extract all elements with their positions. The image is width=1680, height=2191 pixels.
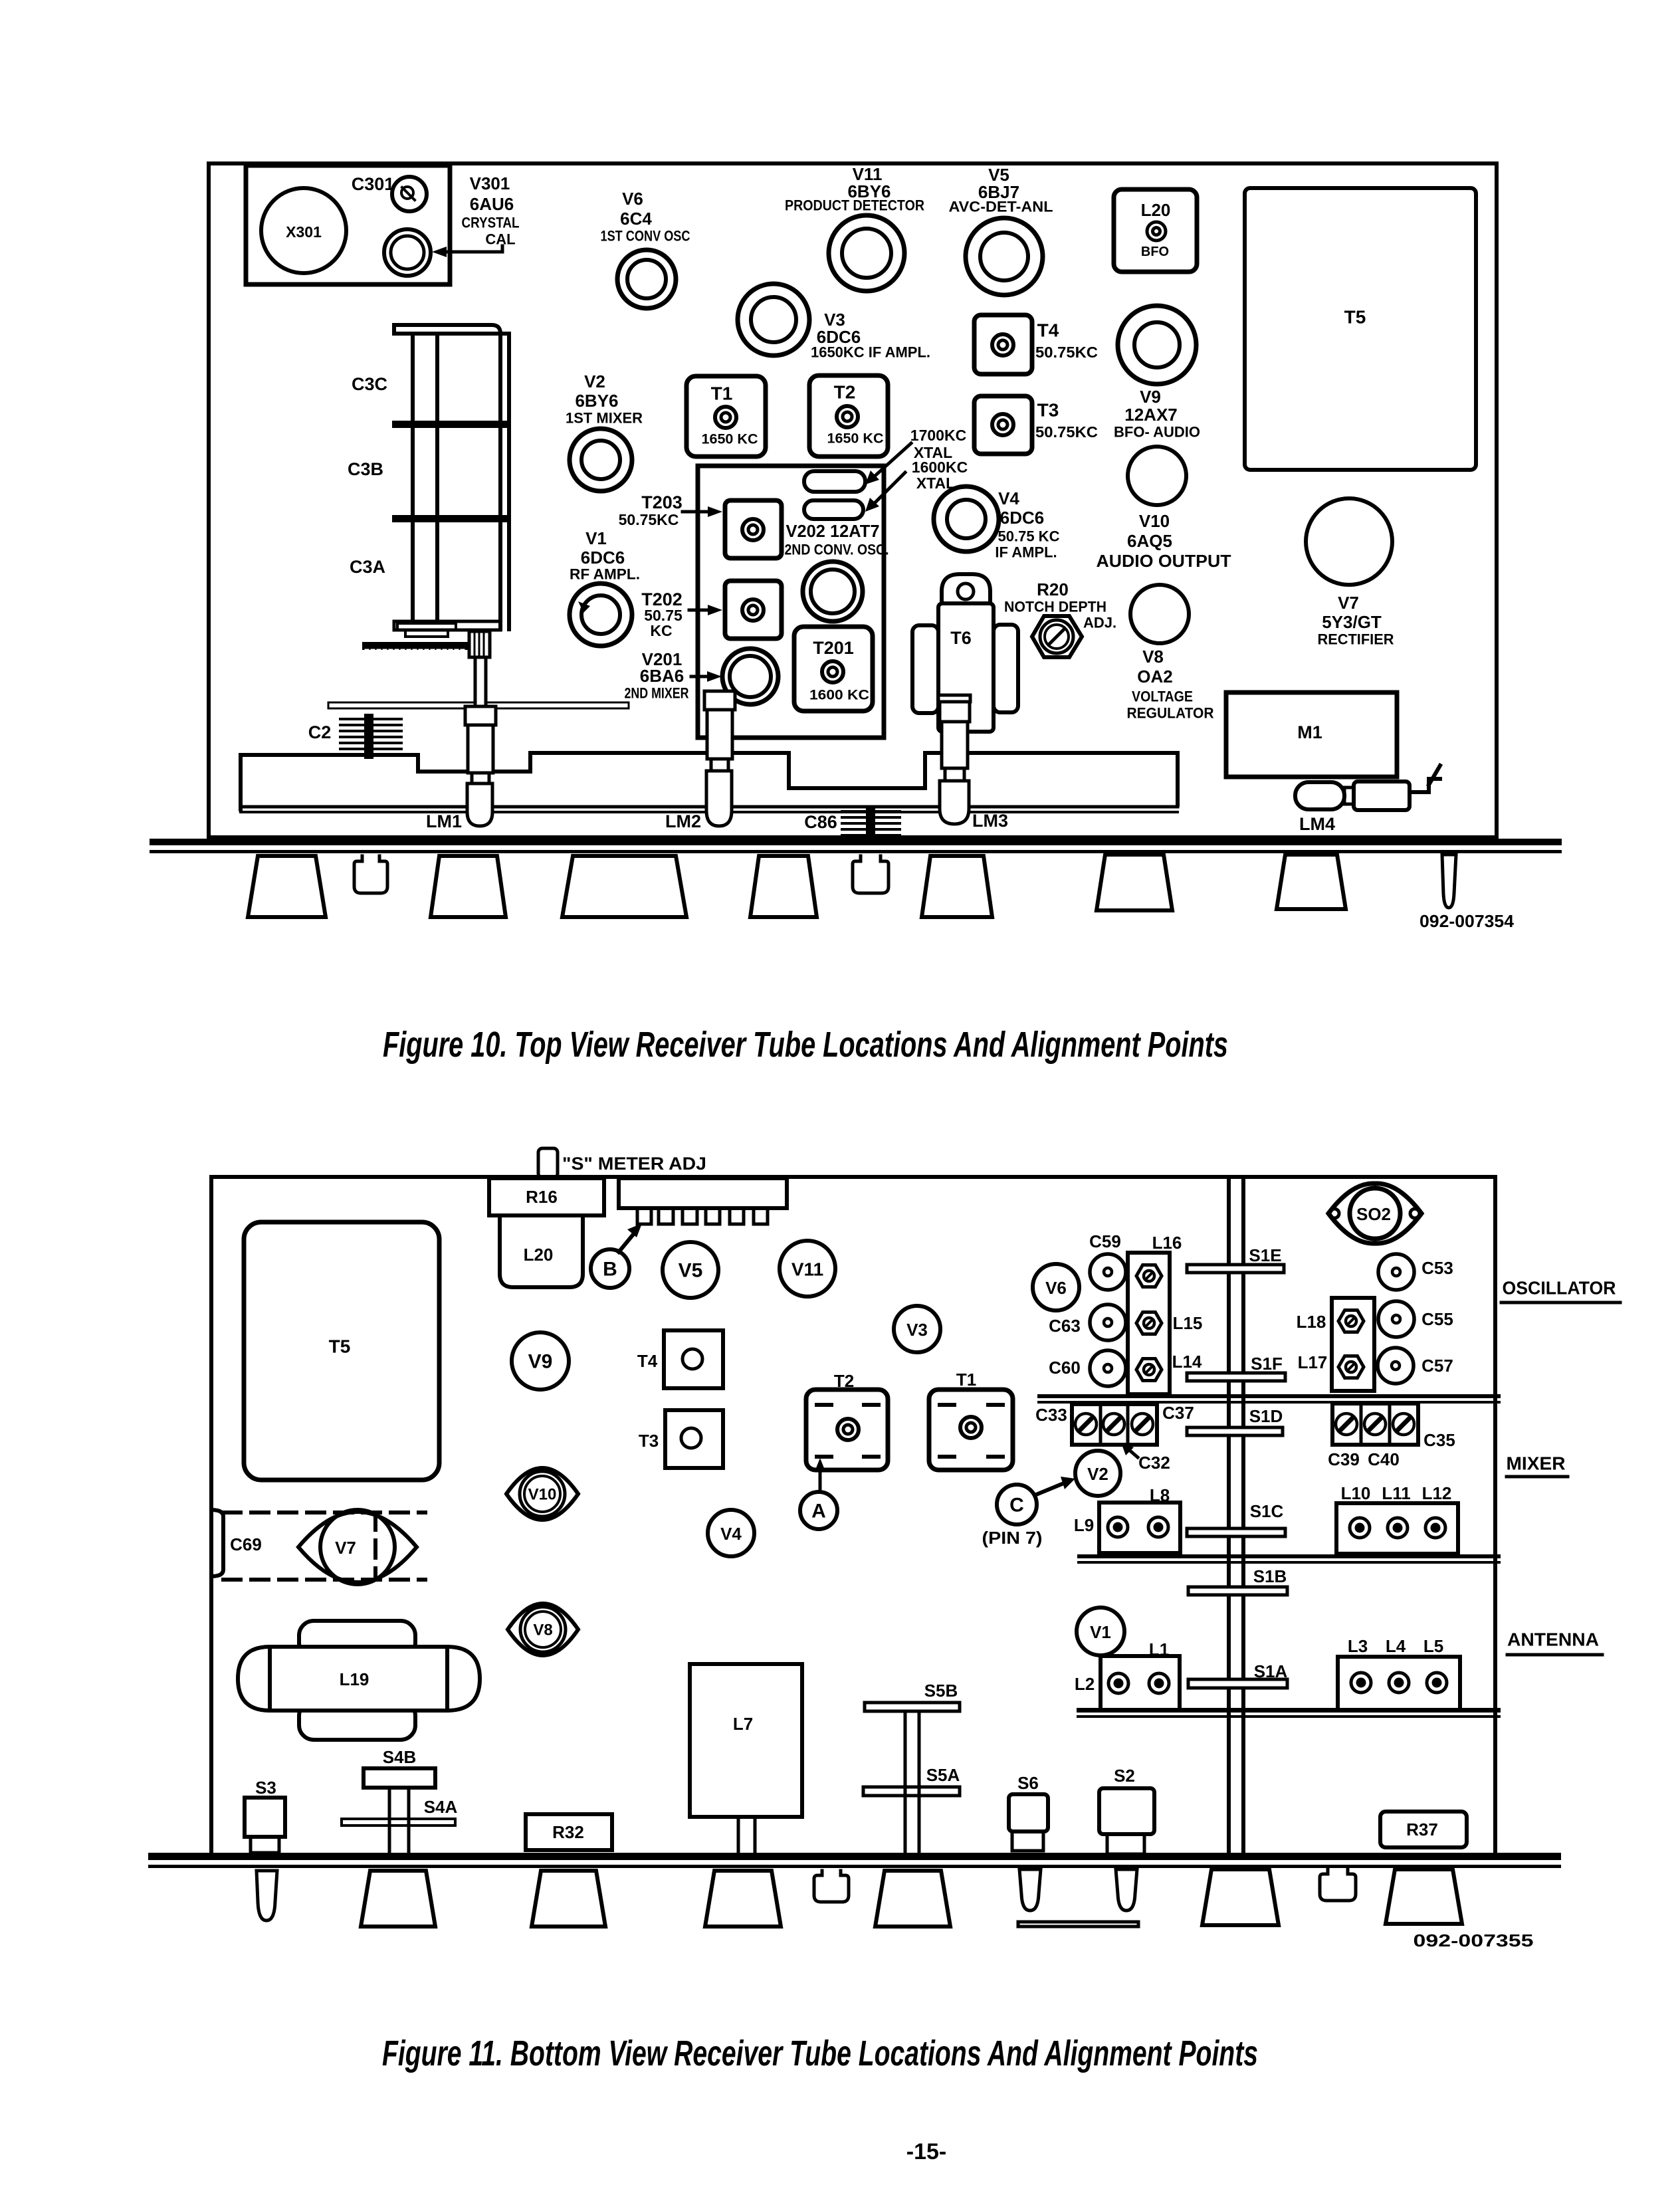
switch shaft S5 xyxy=(905,1711,919,1853)
arrow A to T2 xyxy=(819,1467,822,1491)
capacitor C69 dashed outline xyxy=(223,1513,425,1580)
svg-text:6DC6: 6DC6 xyxy=(1000,508,1044,528)
svg-text:S5B: S5B xyxy=(924,1681,958,1701)
svg-text:C2: C2 xyxy=(308,722,332,742)
tube V3 6DC6 1650KC IF ampl xyxy=(738,284,809,356)
svg-text:6C4: 6C4 xyxy=(620,209,652,229)
tube position V1 xyxy=(1077,1608,1124,1655)
svg-text:5Y3/GT: 5Y3/GT xyxy=(1322,612,1382,632)
pin foot xyxy=(1442,855,1456,908)
leader arrow to 1600KC crystal xyxy=(871,472,905,507)
svg-text:50.75KC: 50.75KC xyxy=(1035,423,1098,441)
svg-text:CRYSTAL: CRYSTAL xyxy=(462,215,520,231)
svg-text:LM2: LM2 xyxy=(665,811,701,831)
svg-text:Figure 11. Bottom View Receive: Figure 11. Bottom View Receiver Tube Loc… xyxy=(382,2034,1258,2073)
prong foot (under S3) xyxy=(257,1871,277,1921)
svg-text:PRODUCT DETECTOR: PRODUCT DETECTOR xyxy=(785,197,924,214)
svg-text:C59: C59 xyxy=(1089,1231,1121,1251)
svg-text:C: C xyxy=(1009,1495,1024,1516)
svg-text:SO2: SO2 xyxy=(1356,1204,1391,1224)
chassis base rail (bottom view) xyxy=(148,1853,1561,1860)
svg-text:V8: V8 xyxy=(1142,647,1164,667)
svg-text:T3: T3 xyxy=(1037,400,1059,421)
svg-text:S4A: S4A xyxy=(424,1797,458,1817)
crystal 1600KC xyxy=(804,500,863,519)
svg-text:L7: L7 xyxy=(733,1714,753,1734)
svg-text:LM3: LM3 xyxy=(972,811,1008,831)
svg-text:S2: S2 xyxy=(1114,1766,1135,1786)
trimmer block C33/C32/C37 xyxy=(1072,1404,1157,1445)
svg-text:50.75KC: 50.75KC xyxy=(619,511,679,528)
svg-text:(PIN 7): (PIN 7) xyxy=(982,1528,1043,1548)
coil L7 xyxy=(690,1664,802,1817)
oscillator/mixer shelf xyxy=(1037,1394,1501,1398)
svg-text:AVC-DET-ANL: AVC-DET-ANL xyxy=(949,199,1053,215)
switch shaft S4 xyxy=(389,1788,409,1853)
svg-text:V3: V3 xyxy=(906,1320,928,1340)
svg-text:C33: C33 xyxy=(1035,1405,1067,1425)
svg-text:2ND CONV. OSC.: 2ND CONV. OSC. xyxy=(785,542,889,558)
svg-text:6AQ5: 6AQ5 xyxy=(1127,531,1172,551)
crystal 1700KC xyxy=(804,471,865,492)
gang section divider (C3B/C3A) xyxy=(392,515,509,522)
svg-text:L5: L5 xyxy=(1423,1636,1443,1656)
test point A xyxy=(800,1492,837,1529)
arrow to V201 xyxy=(691,675,711,678)
foot xyxy=(922,856,992,917)
test point B xyxy=(591,1249,629,1288)
pilot lamp LM4 xyxy=(1295,782,1344,809)
svg-text:L12: L12 xyxy=(1422,1483,1452,1503)
svg-text:S1F: S1F xyxy=(1251,1354,1283,1374)
svg-text:S1C: S1C xyxy=(1250,1501,1284,1521)
chassis outline (bottom view) xyxy=(211,1177,1495,1854)
power transformer T5 (top) xyxy=(1245,188,1476,470)
svg-text:1650 KC: 1650 KC xyxy=(702,432,758,447)
meter M1 xyxy=(1226,692,1397,777)
potentiometer R16 xyxy=(489,1178,604,1215)
svg-text:C60: C60 xyxy=(1049,1358,1081,1378)
chassis outline (top view) xyxy=(209,163,1497,837)
svg-text:L14: L14 xyxy=(1172,1352,1202,1372)
terminal strip connector xyxy=(619,1178,787,1208)
knob foot xyxy=(853,856,889,893)
svg-text:C55: C55 xyxy=(1421,1309,1453,1329)
leader arrow to 1700KC crystal xyxy=(871,443,911,480)
svg-text:T2: T2 xyxy=(834,382,856,403)
gang section divider (C3C/C3B) xyxy=(392,421,509,428)
svg-text:L11: L11 xyxy=(1382,1483,1410,1503)
svg-text:-15-: -15- xyxy=(906,2139,946,2164)
tube position V8 (eye) xyxy=(508,1604,578,1655)
notch transformer T6 xyxy=(942,574,990,605)
svg-text:IF AMPL.: IF AMPL. xyxy=(995,544,1057,561)
svg-text:6BY6: 6BY6 xyxy=(575,391,618,411)
foot xyxy=(562,856,686,917)
tube position V3 xyxy=(894,1306,940,1352)
tube position V4 xyxy=(708,1510,754,1556)
svg-text:S3: S3 xyxy=(255,1778,276,1798)
tube V4 6DC6 50.75KC IF ampl xyxy=(934,486,999,552)
trimmer C53 xyxy=(1378,1254,1414,1290)
arrow C to V2 xyxy=(1035,1483,1065,1495)
svg-text:S4B: S4B xyxy=(383,1747,417,1767)
gang mounting plates xyxy=(397,623,456,630)
svg-text:V6: V6 xyxy=(622,189,643,209)
svg-text:CAL: CAL xyxy=(485,231,515,248)
tube V301 6AU6 crystal cal xyxy=(384,229,431,276)
tube position V7 (eye) xyxy=(298,1512,417,1582)
svg-text:C37: C37 xyxy=(1162,1403,1194,1423)
foot xyxy=(1202,1869,1279,1925)
svg-text:092-007355: 092-007355 xyxy=(1414,1930,1534,1950)
svg-text:R32: R32 xyxy=(552,1822,584,1842)
foot xyxy=(1277,855,1346,909)
svg-text:1ST MIXER: 1ST MIXER xyxy=(566,410,643,427)
prong feet with base plate (under S6/S2) xyxy=(1019,1869,1041,1911)
coil L20 (bottom) xyxy=(500,1215,583,1287)
svg-text:S1D: S1D xyxy=(1249,1406,1283,1426)
svg-text:RECTIFIER: RECTIFIER xyxy=(1318,631,1394,648)
tube position V11 xyxy=(780,1241,835,1297)
svg-text:T4: T4 xyxy=(1037,320,1059,341)
svg-text:V202 12AT7: V202 12AT7 xyxy=(786,521,880,541)
svg-text:S5A: S5A xyxy=(926,1765,960,1785)
svg-text:C86: C86 xyxy=(804,812,837,832)
test point C xyxy=(997,1485,1037,1524)
transformer T1 (bottom) xyxy=(929,1390,1013,1470)
IF transformer T2 xyxy=(809,375,888,457)
IF transformer T1 xyxy=(686,376,766,457)
svg-text:V5: V5 xyxy=(679,1260,703,1282)
svg-text:V1: V1 xyxy=(585,528,607,548)
svg-text:6BA6: 6BA6 xyxy=(640,666,684,686)
svg-text:1600KC: 1600KC xyxy=(912,459,968,476)
tube V8 OA2 voltage regulator xyxy=(1130,585,1189,643)
alignment tool LM2 xyxy=(704,691,735,826)
svg-text:V10: V10 xyxy=(1139,511,1170,531)
svg-text:L20: L20 xyxy=(1141,200,1171,220)
crystal oven box X301 enclosure xyxy=(246,165,450,284)
svg-text:L2: L2 xyxy=(1075,1674,1095,1694)
svg-text:KC: KC xyxy=(650,622,672,639)
foot xyxy=(248,856,326,917)
svg-text:L18: L18 xyxy=(1297,1312,1326,1332)
svg-text:L4: L4 xyxy=(1386,1636,1406,1656)
tube V7 5Y3/GT rectifier xyxy=(1306,498,1392,585)
svg-text:T5: T5 xyxy=(329,1336,351,1357)
transformer T5 (bottom) xyxy=(244,1222,439,1480)
svg-text:V301: V301 xyxy=(470,173,510,193)
svg-text:L20: L20 xyxy=(524,1245,554,1265)
IF transformer T202 xyxy=(725,581,782,639)
knob foot xyxy=(814,1871,849,1902)
svg-text:2ND MIXER: 2ND MIXER xyxy=(625,685,689,702)
svg-text:V8: V8 xyxy=(533,1621,552,1639)
svg-text:6AU6: 6AU6 xyxy=(470,194,514,214)
trimmer C57 xyxy=(1378,1348,1414,1384)
svg-text:T2: T2 xyxy=(834,1371,854,1391)
svg-text:V7: V7 xyxy=(1338,593,1359,613)
svg-text:T1: T1 xyxy=(711,383,733,404)
switch shaft S1 xyxy=(1229,1177,1243,1854)
transformer T4 (bottom) xyxy=(664,1330,723,1388)
transformer T2 (bottom) xyxy=(806,1390,888,1470)
svg-text:MIXER: MIXER xyxy=(1507,1453,1566,1474)
tube position V6 xyxy=(1033,1264,1079,1310)
svg-text:092-007354: 092-007354 xyxy=(1419,911,1515,931)
foot xyxy=(1386,1869,1462,1924)
svg-text:C3B: C3B xyxy=(348,459,383,479)
tube position V9 xyxy=(512,1332,569,1390)
svg-text:S1E: S1E xyxy=(1249,1245,1281,1265)
second converter module enclosure xyxy=(698,466,884,738)
svg-text:50.75 KC: 50.75 KC xyxy=(998,528,1060,545)
svg-text:C3C: C3C xyxy=(352,374,387,394)
svg-text:1700KC: 1700KC xyxy=(910,427,966,444)
svg-text:AUDIO OUTPUT: AUDIO OUTPUT xyxy=(1097,551,1231,571)
foot xyxy=(431,856,506,917)
svg-text:R37: R37 xyxy=(1406,1820,1438,1839)
svg-text:"S" METER ADJ: "S" METER ADJ xyxy=(562,1154,706,1174)
dial shaft rod xyxy=(328,702,629,708)
IF transformer T4 xyxy=(974,315,1032,374)
tube position V10 (eye) xyxy=(506,1468,578,1520)
svg-text:1600 KC: 1600 KC xyxy=(809,688,869,703)
svg-text:1650KC IF AMPL.: 1650KC IF AMPL. xyxy=(811,344,930,361)
svg-text:C39: C39 xyxy=(1328,1449,1360,1469)
tube position V5 xyxy=(663,1242,718,1298)
svg-text:C53: C53 xyxy=(1421,1258,1453,1278)
svg-text:V1: V1 xyxy=(1090,1622,1111,1642)
tube V9 12AX7 bfo-audio xyxy=(1118,306,1196,384)
svg-text:C40: C40 xyxy=(1368,1449,1400,1469)
svg-text:L16: L16 xyxy=(1152,1233,1182,1253)
svg-text:NOTCH DEPTH: NOTCH DEPTH xyxy=(1004,599,1106,615)
foot xyxy=(361,1871,435,1927)
svg-text:ANTENNA: ANTENNA xyxy=(1507,1629,1599,1650)
front apron shelf (top view) xyxy=(241,753,1178,809)
svg-text:V2: V2 xyxy=(584,371,605,391)
S meter pot stem xyxy=(538,1148,558,1178)
alignment tool LM1 xyxy=(465,657,496,826)
svg-text:T5: T5 xyxy=(1344,307,1366,328)
BFO coil L20 xyxy=(1114,189,1197,272)
connector pins xyxy=(637,1208,768,1224)
svg-text:L10: L10 xyxy=(1341,1483,1371,1503)
svg-text:S6: S6 xyxy=(1017,1773,1039,1793)
svg-text:BFO- AUDIO: BFO- AUDIO xyxy=(1114,424,1200,441)
resistor R37 xyxy=(1380,1812,1467,1847)
foot xyxy=(705,1871,781,1927)
svg-text:1650 KC: 1650 KC xyxy=(827,431,884,447)
svg-text:L9: L9 xyxy=(1074,1515,1094,1535)
svg-text:50.75KC: 50.75KC xyxy=(1035,344,1098,361)
svg-text:REGULATOR: REGULATOR xyxy=(1127,705,1214,722)
svg-text:T201: T201 xyxy=(813,638,854,658)
knob foot xyxy=(1320,1869,1356,1901)
svg-text:V4: V4 xyxy=(998,488,1019,508)
svg-text:M1: M1 xyxy=(1297,722,1322,742)
svg-text:T1: T1 xyxy=(956,1370,976,1390)
svg-text:T203: T203 xyxy=(641,492,682,512)
arrow B to pin xyxy=(619,1233,635,1252)
IF transformer T3 xyxy=(974,396,1032,454)
svg-text:C35: C35 xyxy=(1423,1430,1455,1450)
alignment tool LM3 xyxy=(938,695,970,824)
svg-text:L17: L17 xyxy=(1298,1352,1328,1372)
svg-text:L3: L3 xyxy=(1348,1636,1368,1656)
tube position V2 xyxy=(1075,1451,1120,1496)
svg-text:V4: V4 xyxy=(720,1524,742,1544)
svg-text:A: A xyxy=(811,1501,826,1522)
svg-text:Figure 10. Top View Receiver T: Figure 10. Top View Receiver Tube Locati… xyxy=(383,1025,1228,1065)
transformer T3 (bottom) xyxy=(665,1410,723,1468)
svg-text:C69: C69 xyxy=(230,1534,262,1554)
svg-text:V2: V2 xyxy=(1087,1464,1108,1484)
svg-text:R20: R20 xyxy=(1037,579,1069,599)
foot xyxy=(750,856,817,917)
svg-text:S1B: S1B xyxy=(1253,1566,1287,1586)
trimmer block C39/C40/C35 xyxy=(1332,1404,1418,1445)
crystal X301 xyxy=(261,188,346,273)
tube V10 6AQ5 audio output xyxy=(1128,447,1186,505)
leader arrow to V301 xyxy=(440,246,502,252)
svg-text:VOLTAGE: VOLTAGE xyxy=(1132,688,1193,705)
tuning gang capacitor C3 frame xyxy=(394,325,509,629)
trimmer C55 xyxy=(1378,1301,1414,1337)
svg-text:OA2: OA2 xyxy=(1137,667,1172,686)
IF transformer T203 xyxy=(725,500,782,558)
svg-text:BFO: BFO xyxy=(1141,245,1169,259)
svg-text:C63: C63 xyxy=(1049,1316,1081,1336)
svg-text:OSCILLATOR: OSCILLATOR xyxy=(1503,1278,1616,1299)
svg-text:T3: T3 xyxy=(639,1431,659,1451)
dial drive bar xyxy=(362,642,469,650)
svg-text:C32: C32 xyxy=(1138,1453,1170,1473)
svg-text:12AX7: 12AX7 xyxy=(1124,405,1178,425)
svg-text:ADJ.: ADJ. xyxy=(1083,615,1116,631)
antenna shelf xyxy=(1077,1708,1501,1713)
svg-text:6DC6: 6DC6 xyxy=(581,548,625,568)
IF transformer T201 xyxy=(794,627,873,711)
arrow to T202 xyxy=(689,609,711,612)
svg-text:B: B xyxy=(603,1259,617,1281)
knurled drive knob xyxy=(469,631,490,657)
svg-text:V10: V10 xyxy=(528,1486,557,1504)
svg-text:X301: X301 xyxy=(286,223,322,241)
mixer/antenna shelf xyxy=(1077,1554,1501,1558)
svg-text:V6: V6 xyxy=(1045,1278,1067,1298)
svg-text:L15: L15 xyxy=(1173,1313,1203,1333)
svg-text:LM1: LM1 xyxy=(426,811,462,831)
svg-text:1ST CONV OSC: 1ST CONV OSC xyxy=(601,228,690,245)
capacitor C69 mounting tab xyxy=(211,1510,223,1576)
resistor R32 xyxy=(526,1814,612,1850)
knob foot xyxy=(354,856,387,893)
foot xyxy=(875,1871,950,1927)
chassis base rail xyxy=(150,839,1562,845)
svg-text:C3A: C3A xyxy=(350,557,385,577)
foot xyxy=(1097,855,1172,910)
svg-text:V9: V9 xyxy=(1140,387,1161,407)
svg-text:R16: R16 xyxy=(526,1187,558,1207)
svg-text:V11: V11 xyxy=(791,1259,823,1280)
svg-text:T6: T6 xyxy=(950,628,972,648)
foot xyxy=(532,1871,605,1927)
filter choke L19 xyxy=(238,1621,480,1740)
socket SO2 xyxy=(1328,1184,1421,1243)
svg-text:RF AMPL.: RF AMPL. xyxy=(570,566,640,583)
svg-text:C57: C57 xyxy=(1421,1356,1453,1376)
arrow to T203 xyxy=(682,510,711,514)
svg-text:LM4: LM4 xyxy=(1299,814,1335,834)
svg-text:C301: C301 xyxy=(352,174,395,194)
svg-text:L19: L19 xyxy=(340,1669,369,1689)
svg-text:T4: T4 xyxy=(637,1351,658,1371)
svg-text:V9: V9 xyxy=(528,1351,553,1373)
svg-text:V7: V7 xyxy=(335,1538,356,1558)
